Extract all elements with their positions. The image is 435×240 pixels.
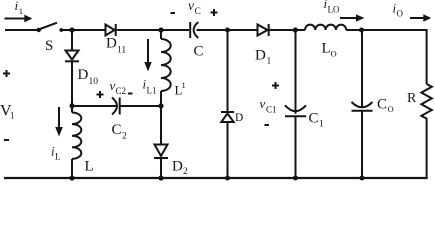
svg-text:1: 1 [182,80,186,90]
diode D2 [154,145,168,159]
svg-text:2: 2 [122,132,127,142]
label V1 [0,102,15,120]
wire D to bottom rail [227,123,229,179]
svg-text:11: 11 [117,46,126,56]
current arrow iLO [340,14,365,21]
label C1 [309,111,325,130]
inductor L1 [161,39,171,91]
svg-text:1: 1 [319,120,324,130]
node B junction dot (top of L) [70,103,75,108]
label + (vC) [211,9,218,16]
svg-text:D: D [255,48,266,64]
label vC [188,0,201,17]
wire D1 to LO [270,29,305,31]
junction dot bottom of D2 [158,175,163,180]
label - (vC) [171,12,176,14]
wire L1 top lead [160,30,162,39]
svg-text:C: C [112,122,122,138]
capacitor CO [352,102,373,111]
label iO [393,1,404,19]
label iL1 [143,77,157,96]
current arrow i1 [5,15,33,23]
wire node A down to D10 [71,30,73,51]
label C2 [112,122,128,142]
wire CO bottom lead [361,111,363,178]
capacitor C1 [285,105,306,116]
wire D2 to bottom rail [160,158,162,178]
wire switch to D11 [61,29,105,31]
svg-text:L: L [85,159,94,175]
label i1 [15,0,24,16]
svg-text:D: D [78,67,89,83]
wire right rail bottom [426,121,428,178]
svg-text:L: L [55,152,61,162]
svg-text:1: 1 [10,111,15,121]
label - (vC1) [265,124,270,126]
svg-text:O: O [397,9,404,19]
svg-text:C: C [194,43,204,59]
node C junction dot (161,106) [158,103,163,108]
node junction dot top of D branch [225,28,230,33]
wire C1 bottom lead [295,116,297,178]
svg-text:D: D [172,159,183,175]
wire D branch top [227,30,229,112]
svg-text:10: 10 [89,77,99,87]
node junction dot top of C1 [293,27,298,32]
wire LO to top right corner [346,29,426,31]
junction dot bottom of C1 [293,176,298,181]
svg-text:v: v [260,96,266,111]
label D11 [106,36,126,56]
svg-text:C: C [377,97,387,113]
svg-text:O: O [388,104,394,114]
junction dot bottom of CO [360,176,365,181]
node junction dot top of CO [359,28,364,33]
junction dot bottom of D [225,176,230,181]
node junction dot top of L1 [158,27,163,32]
svg-text:L: L [322,41,331,57]
capacitor C [190,22,198,38]
diode D10 [65,51,79,62]
label CO [377,97,394,115]
label LO [322,41,337,59]
current arrow iL1 [144,39,151,72]
diode D11 [106,24,116,36]
svg-text:LO: LO [328,5,340,15]
wire right rail top [426,29,428,84]
current arrow iO [410,14,431,22]
wire bottom rail [4,177,428,179]
svg-text:1: 1 [19,6,23,16]
label + (vC1) [272,82,279,89]
junction dot bottom of L [69,175,74,180]
wire C2 right [120,105,161,107]
wire L to bottom rail [71,159,73,178]
wire top rail left to switch [5,29,38,31]
svg-text:C: C [309,111,319,127]
svg-text:S: S [45,38,53,54]
label D1 [255,48,272,67]
wire C to D1 [197,29,258,31]
label iL [51,144,61,162]
diode D1 [258,24,269,36]
svg-text:O: O [331,49,337,59]
inductor L [72,113,81,159]
wire C2 left [72,105,118,107]
wire CO top lead [361,30,363,108]
label L1 [175,80,186,97]
svg-text:L1: L1 [147,86,157,96]
label iLO [324,0,340,15]
svg-text:C: C [195,7,201,17]
wire C1 top lead [295,30,297,114]
svg-text:C2: C2 [116,86,127,96]
wire D10 to node B [71,61,73,112]
wire D11 to capacitor C [117,29,189,31]
label - (vC2) [128,93,133,95]
label vC2 [110,78,127,96]
node junction dot top of D10 branch [69,27,74,32]
wire L1 to node C [160,91,162,144]
switch S [37,23,64,33]
svg-text:2: 2 [183,167,188,177]
inductor LO [305,25,346,30]
label - (V1) [4,139,9,141]
label D10 [78,67,99,87]
svg-text:D: D [235,112,243,124]
label D2 [172,159,188,178]
svg-text:R: R [407,91,417,106]
svg-text:D: D [106,36,117,52]
svg-text:1: 1 [267,57,272,67]
label + (vC2) [97,91,104,98]
label + (V1) [3,70,10,77]
label vC1 [260,96,277,115]
diode D (freewheeling, pointing up) [221,112,234,122]
svg-text:C1: C1 [266,105,277,115]
resistor R [421,84,431,121]
capacitor C2 [112,98,120,115]
svg-text:v: v [188,0,194,13]
current arrow iL [55,107,63,137]
